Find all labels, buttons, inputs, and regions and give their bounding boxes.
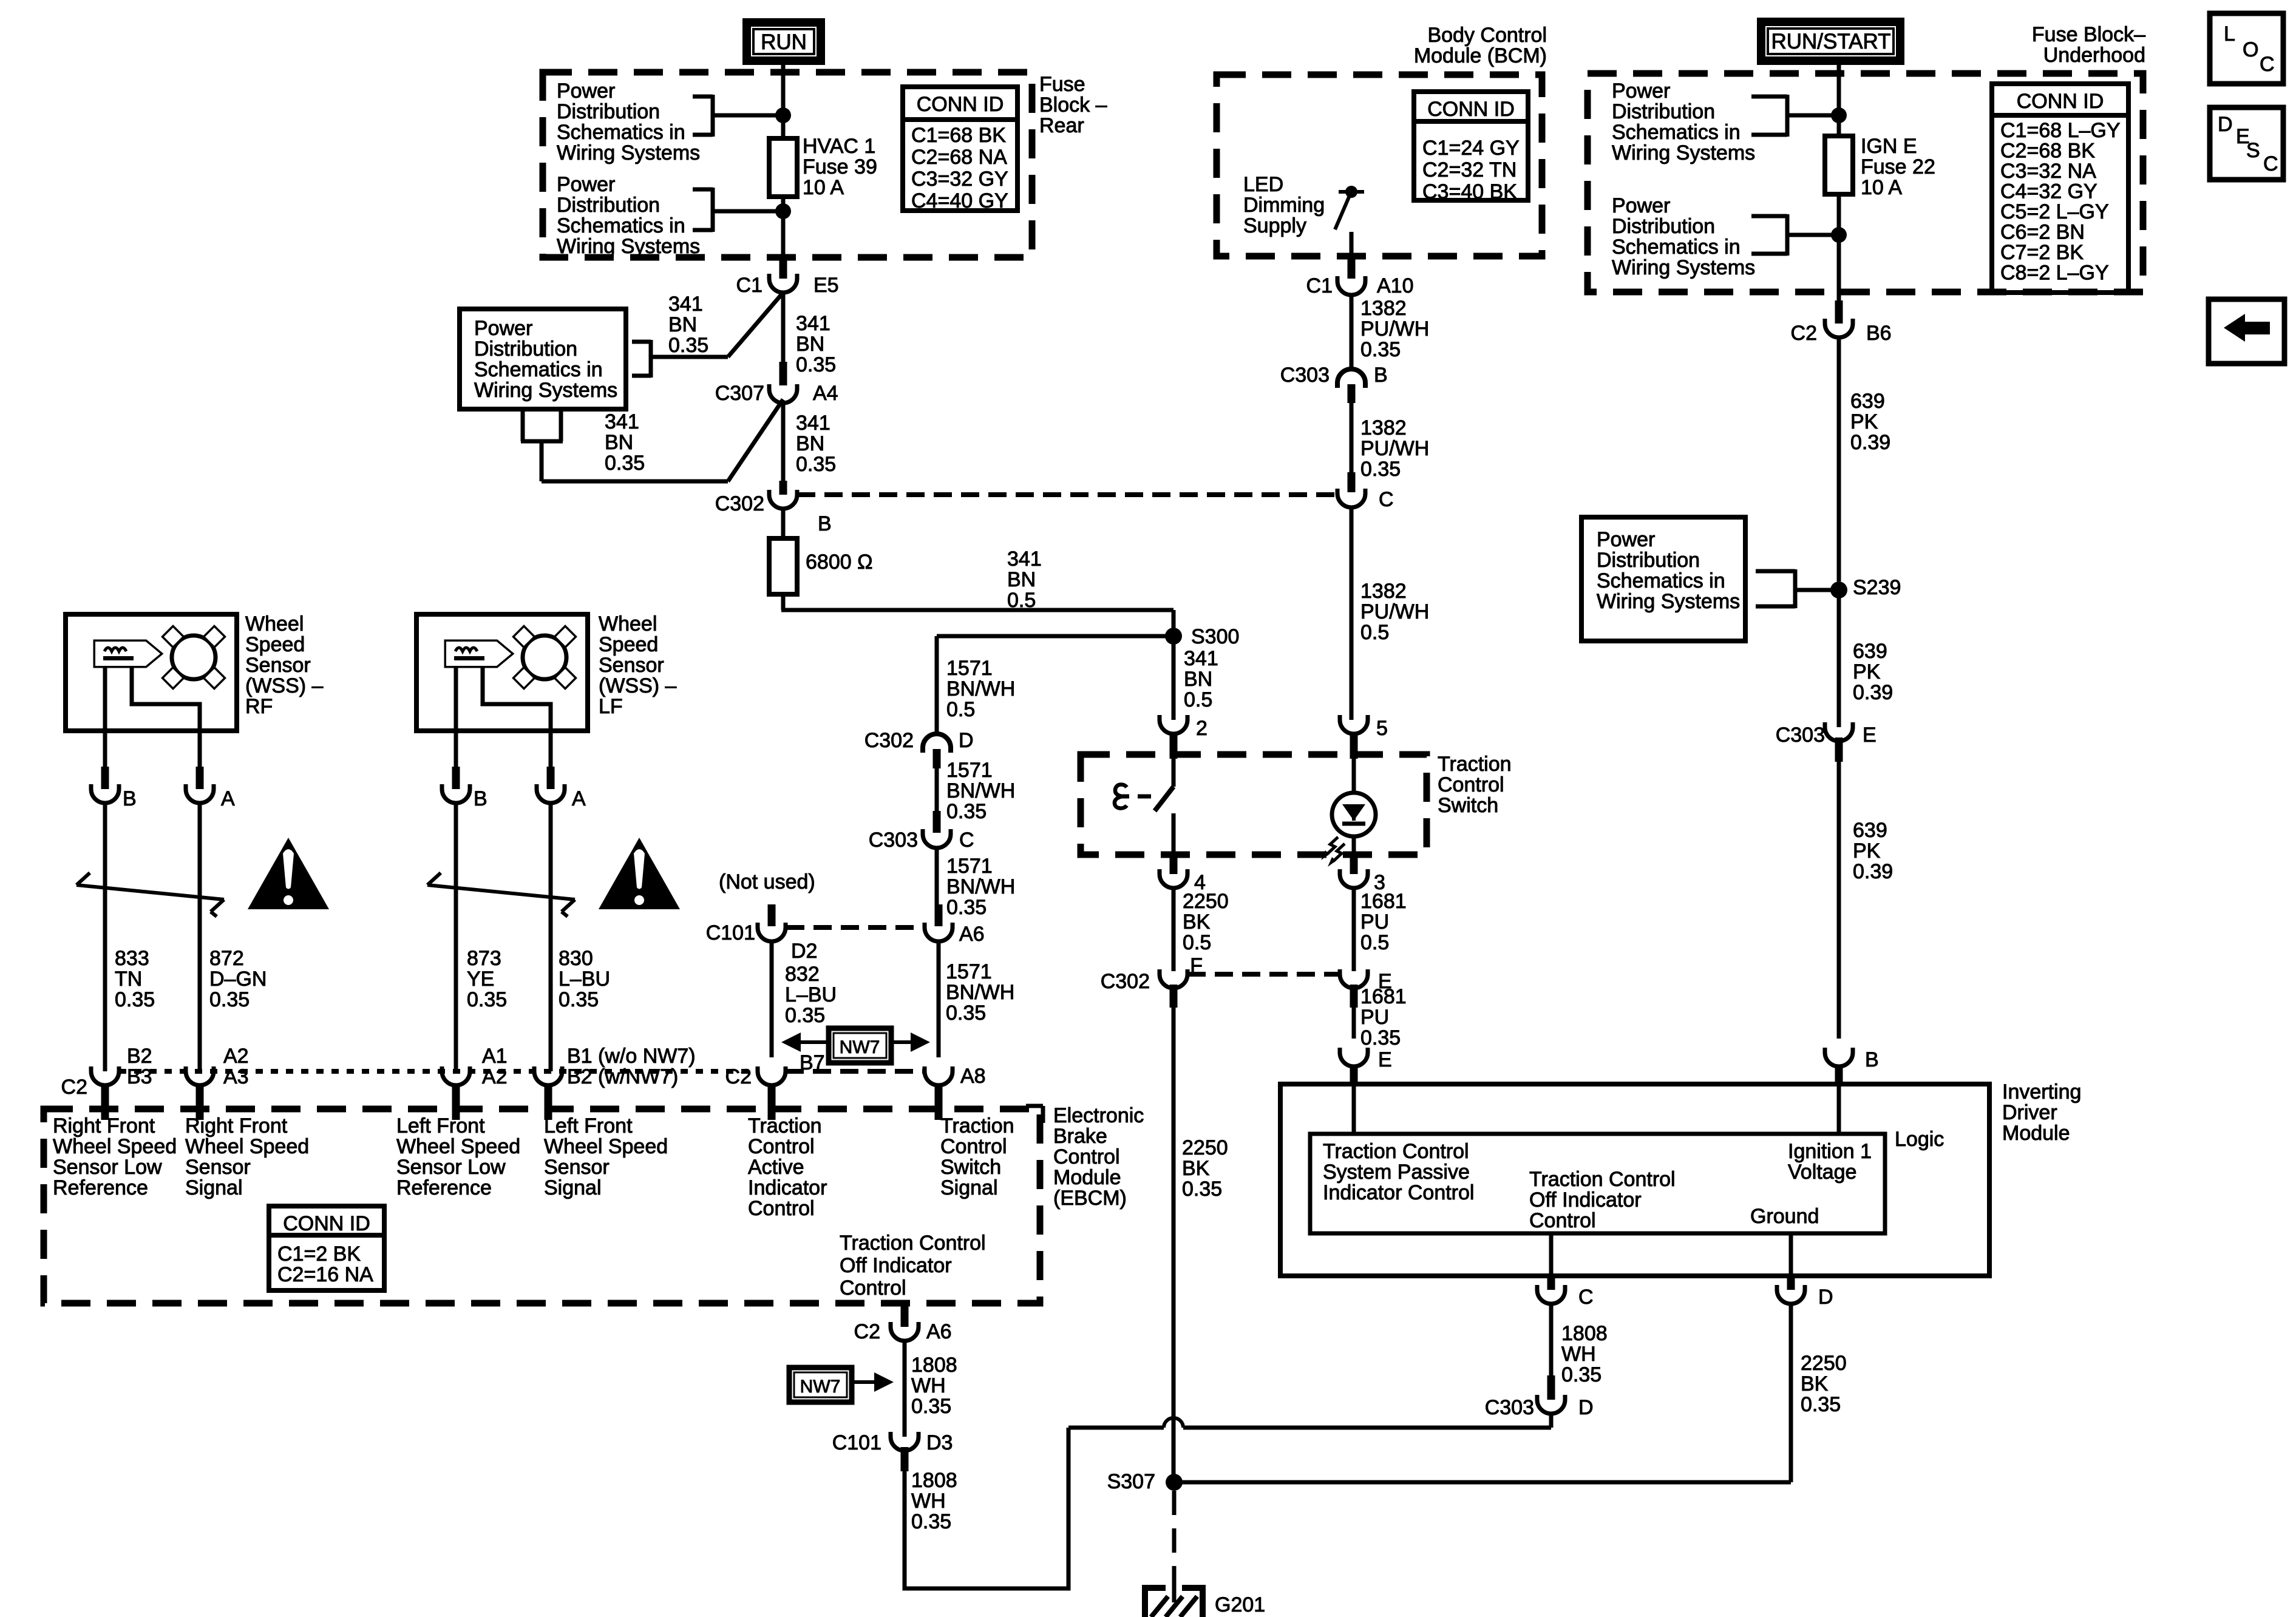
svg-text:S: S (2246, 139, 2260, 162)
svg-text:0.35: 0.35 (796, 353, 836, 376)
svg-text:E: E (1378, 1048, 1392, 1071)
svg-text:0.35: 0.35 (1360, 338, 1401, 361)
svg-text:A: A (572, 787, 586, 810)
svg-text:BN: BN (1184, 668, 1212, 691)
svg-text:Left Front: Left Front (544, 1114, 633, 1137)
svg-text:0.5: 0.5 (1007, 589, 1036, 612)
svg-text:C1=2 BK: C1=2 BK (277, 1242, 361, 1266)
svg-text:0.35: 0.35 (467, 988, 507, 1011)
svg-text:PK: PK (1853, 839, 1881, 863)
svg-text:Fuse 22: Fuse 22 (1861, 155, 1935, 178)
svg-text:Off Indicator: Off Indicator (840, 1254, 952, 1277)
svg-text:Inverting: Inverting (2002, 1080, 2081, 1103)
svg-text:0.35: 0.35 (1561, 1363, 1601, 1386)
svg-text:Control: Control (840, 1276, 906, 1300)
svg-text:PU/WH: PU/WH (1360, 437, 1429, 460)
svg-text:(EBCM): (EBCM) (1053, 1187, 1127, 1210)
svg-text:Wheel Speed: Wheel Speed (396, 1135, 520, 1158)
svg-text:L–BU: L–BU (785, 983, 837, 1006)
svg-text:B: B (1374, 364, 1388, 387)
svg-text:6800 Ω: 6800 Ω (806, 551, 873, 574)
svg-text:C3=32 GY: C3=32 GY (911, 168, 1008, 191)
svg-text:Distribution: Distribution (474, 337, 577, 361)
svg-text:A2: A2 (223, 1045, 249, 1068)
svg-text:Power: Power (557, 173, 615, 196)
svg-text:NW7: NW7 (800, 1377, 841, 1397)
svg-text:Fuse 39: Fuse 39 (803, 155, 877, 178)
svg-text:Reference: Reference (396, 1176, 492, 1199)
svg-text:(Not used): (Not used) (719, 870, 815, 893)
svg-text:E5: E5 (813, 274, 839, 297)
svg-text:0.35: 0.35 (115, 988, 155, 1011)
svg-text:A4: A4 (813, 382, 838, 405)
svg-text:0.39: 0.39 (1853, 860, 1893, 883)
svg-text:Right Front: Right Front (53, 1114, 155, 1137)
svg-text:Wiring Systems: Wiring Systems (474, 379, 617, 402)
svg-text:0.39: 0.39 (1850, 431, 1890, 454)
svg-text:Power: Power (557, 80, 615, 103)
svg-text:Wiring Systems: Wiring Systems (1612, 256, 1755, 279)
svg-text:Sensor: Sensor (185, 1156, 251, 1179)
svg-text:C: C (2263, 152, 2278, 175)
svg-text:0.5: 0.5 (1360, 931, 1389, 954)
svg-text:PU/WH: PU/WH (1360, 600, 1429, 623)
svg-text:Traction Control: Traction Control (1323, 1140, 1469, 1163)
svg-text:C2=32 TN: C2=32 TN (1422, 158, 1517, 181)
svg-text:BK: BK (1801, 1372, 1829, 1395)
svg-text:Wiring Systems: Wiring Systems (1612, 141, 1755, 164)
svg-text:LED: LED (1243, 173, 1283, 196)
svg-text:Sensor: Sensor (599, 654, 664, 677)
svg-text:BK: BK (1183, 910, 1211, 934)
svg-text:A10: A10 (1377, 274, 1414, 297)
svg-text:Dimming: Dimming (1243, 194, 1325, 217)
svg-text:Traction Control: Traction Control (840, 1232, 986, 1255)
svg-text:Sensor Low: Sensor Low (53, 1156, 162, 1179)
svg-text:S239: S239 (1853, 576, 1901, 599)
svg-text:Right Front: Right Front (185, 1114, 288, 1137)
svg-text:639: 639 (1853, 819, 1887, 842)
svg-text:Ignition 1: Ignition 1 (1788, 1140, 1872, 1163)
svg-text:Control: Control (748, 1197, 815, 1220)
svg-text:5: 5 (1376, 717, 1388, 740)
svg-text:RUN: RUN (761, 30, 807, 54)
svg-text:2250: 2250 (1183, 890, 1229, 913)
svg-text:Wheel Speed: Wheel Speed (53, 1135, 177, 1158)
svg-text:Wiring Systems: Wiring Systems (557, 235, 700, 258)
svg-text:Distribution: Distribution (1597, 549, 1700, 572)
svg-text:341: 341 (796, 412, 830, 435)
svg-text:D2: D2 (791, 940, 817, 963)
svg-text:C6=2 BN: C6=2 BN (2000, 221, 2085, 244)
svg-text:C2=68 NA: C2=68 NA (911, 146, 1007, 169)
svg-text:0.5: 0.5 (1183, 931, 1211, 954)
svg-text:Brake: Brake (1053, 1125, 1107, 1148)
svg-text:S307: S307 (1107, 1470, 1155, 1493)
svg-text:0.5: 0.5 (1184, 688, 1212, 711)
svg-text:Power: Power (1612, 194, 1670, 217)
svg-text:Control: Control (748, 1135, 815, 1158)
svg-text:2250: 2250 (1801, 1352, 1847, 1375)
svg-text:C7=2 BK: C7=2 BK (2000, 241, 2084, 264)
svg-text:D: D (959, 729, 974, 752)
svg-text:Electronic: Electronic (1053, 1104, 1144, 1127)
svg-text:0.5: 0.5 (1360, 621, 1389, 644)
svg-text:1681: 1681 (1360, 985, 1407, 1008)
svg-text:C: C (1578, 1286, 1594, 1309)
svg-text:Distribution: Distribution (557, 100, 660, 123)
svg-text:0.35: 0.35 (1360, 458, 1401, 481)
svg-text:Indicator: Indicator (748, 1176, 827, 1199)
svg-text:C307: C307 (715, 382, 764, 405)
svg-text:L–BU: L–BU (559, 968, 610, 991)
svg-text:BN: BN (668, 313, 697, 336)
svg-text:Speed: Speed (245, 633, 305, 656)
svg-text:C1=24 GY: C1=24 GY (1422, 137, 1520, 160)
svg-text:Wheel: Wheel (245, 612, 304, 636)
svg-text:1681: 1681 (1360, 890, 1407, 913)
svg-text:Module: Module (1053, 1166, 1121, 1189)
svg-text:1382: 1382 (1360, 297, 1407, 320)
svg-text:BN/WH: BN/WH (946, 779, 1015, 802)
svg-text:C303: C303 (869, 829, 918, 852)
svg-text:LF: LF (599, 695, 623, 718)
svg-text:C: C (2260, 53, 2275, 76)
svg-text:1382: 1382 (1360, 580, 1407, 603)
svg-text:D: D (1578, 1396, 1594, 1419)
svg-text:1808: 1808 (911, 1354, 957, 1377)
svg-text:C: C (959, 829, 974, 852)
svg-text:10 A: 10 A (803, 176, 844, 199)
svg-text:CONN ID: CONN ID (1427, 98, 1515, 121)
svg-text:Off Indicator: Off Indicator (1529, 1188, 1642, 1212)
svg-text:Ground: Ground (1750, 1205, 1819, 1228)
svg-text:B: B (474, 787, 487, 810)
svg-text:Schematics in: Schematics in (1612, 121, 1741, 144)
svg-text:Module (BCM): Module (BCM) (1414, 44, 1547, 67)
svg-text:Traction: Traction (940, 1114, 1014, 1137)
svg-text:HVAC 1: HVAC 1 (803, 135, 875, 158)
svg-text:BN/WH: BN/WH (946, 981, 1014, 1004)
svg-text:System Passive: System Passive (1323, 1161, 1470, 1184)
svg-text:Signal: Signal (940, 1176, 998, 1199)
svg-text:A8: A8 (960, 1065, 986, 1088)
svg-text:B2: B2 (127, 1045, 152, 1068)
svg-text:Traction: Traction (748, 1114, 822, 1137)
svg-text:0.35: 0.35 (946, 1002, 986, 1025)
svg-text:1808: 1808 (1561, 1322, 1608, 1345)
svg-text:PU/WH: PU/WH (1360, 317, 1429, 341)
svg-text:10 A: 10 A (1861, 176, 1902, 199)
svg-text:BN: BN (605, 431, 633, 454)
svg-text:B: B (123, 787, 137, 810)
svg-text:(WSS) –: (WSS) – (245, 674, 324, 697)
svg-text:Wiring Systems: Wiring Systems (1597, 590, 1740, 613)
svg-text:C303: C303 (1485, 1396, 1534, 1419)
svg-text:C4=40 GY: C4=40 GY (911, 189, 1008, 212)
svg-text:Rear: Rear (1039, 114, 1084, 137)
svg-text:PU: PU (1360, 1006, 1389, 1029)
svg-text:0.35: 0.35 (1801, 1393, 1841, 1416)
svg-text:Control: Control (940, 1135, 1007, 1158)
svg-text:Fuse Block–: Fuse Block– (2032, 23, 2145, 46)
svg-text:C1: C1 (1306, 274, 1333, 297)
svg-text:C2=16 NA: C2=16 NA (277, 1263, 373, 1286)
svg-text:Power: Power (1597, 528, 1655, 551)
svg-text:C1=68 BK: C1=68 BK (911, 124, 1006, 147)
svg-text:BN/WH: BN/WH (946, 875, 1015, 898)
svg-text:BN: BN (796, 432, 824, 455)
svg-text:Voltage: Voltage (1788, 1161, 1856, 1184)
svg-text:Distribution: Distribution (557, 194, 660, 217)
svg-text:Schematics in: Schematics in (1597, 569, 1725, 592)
svg-text:Traction Control: Traction Control (1529, 1168, 1676, 1191)
svg-text:Block –: Block – (1039, 93, 1107, 117)
svg-text:1571: 1571 (946, 759, 993, 782)
svg-text:Speed: Speed (599, 633, 658, 656)
svg-text:Driver: Driver (2002, 1101, 2057, 1124)
svg-text:341: 341 (796, 312, 830, 335)
svg-text:TN: TN (115, 968, 142, 991)
svg-text:872: 872 (209, 947, 244, 970)
svg-text:Traction: Traction (1438, 753, 1512, 776)
svg-text:CONN ID: CONN ID (2017, 90, 2104, 113)
svg-text:0.35: 0.35 (1182, 1178, 1222, 1201)
svg-text:Reference: Reference (53, 1176, 148, 1199)
svg-text:Wheel: Wheel (599, 612, 657, 636)
svg-text:Supply: Supply (1243, 214, 1306, 237)
svg-text:C101: C101 (706, 921, 755, 944)
svg-text:Schematics in: Schematics in (557, 121, 685, 144)
svg-text:Left Front: Left Front (396, 1114, 485, 1137)
svg-text:E: E (1863, 724, 1877, 747)
svg-text:A6: A6 (926, 1320, 952, 1343)
svg-text:C1: C1 (736, 274, 763, 297)
svg-text:WH: WH (911, 1490, 946, 1513)
svg-text:Module: Module (2002, 1122, 2070, 1145)
svg-text:Sensor Low: Sensor Low (396, 1156, 506, 1179)
svg-text:Schematics in: Schematics in (474, 358, 603, 381)
svg-text:A: A (221, 787, 235, 810)
svg-text:(WSS) –: (WSS) – (599, 674, 677, 697)
svg-text:A6: A6 (959, 923, 985, 946)
svg-text:B3: B3 (127, 1065, 152, 1088)
svg-text:Sensor: Sensor (544, 1156, 610, 1179)
svg-text:A2: A2 (482, 1065, 508, 1088)
svg-text:1571: 1571 (946, 855, 993, 878)
svg-text:Indicator Control: Indicator Control (1323, 1181, 1474, 1204)
svg-text:Underhood: Underhood (2043, 44, 2145, 67)
svg-text:C303: C303 (1776, 724, 1825, 747)
svg-text:341: 341 (668, 293, 703, 316)
svg-text:Schematics in: Schematics in (557, 214, 685, 237)
svg-text:B2 (w/NW7): B2 (w/NW7) (567, 1065, 678, 1088)
svg-text:0.35: 0.35 (559, 988, 599, 1011)
svg-text:B6: B6 (1866, 322, 1892, 345)
svg-text:Signal: Signal (544, 1176, 602, 1199)
svg-text:WH: WH (911, 1374, 946, 1397)
svg-text:Distribution: Distribution (1612, 215, 1715, 238)
svg-text:C2: C2 (854, 1320, 880, 1343)
svg-text:C3=32 NA: C3=32 NA (2000, 160, 2096, 183)
svg-text:639: 639 (1850, 390, 1885, 413)
svg-text:Wheel Speed: Wheel Speed (185, 1135, 309, 1158)
svg-text:C101: C101 (832, 1431, 881, 1454)
svg-text:C2: C2 (725, 1065, 752, 1088)
svg-text:C302: C302 (1101, 970, 1150, 993)
svg-text:Power: Power (474, 317, 532, 340)
svg-text:Sensor: Sensor (245, 654, 311, 677)
svg-text:Control: Control (1438, 773, 1504, 796)
svg-text:A3: A3 (223, 1065, 249, 1088)
svg-text:YE: YE (467, 968, 494, 991)
svg-text:C302: C302 (715, 492, 764, 515)
svg-text:Logic: Logic (1895, 1128, 1944, 1151)
svg-text:C302: C302 (864, 729, 914, 752)
svg-text:BK: BK (1182, 1157, 1210, 1180)
svg-text:BN: BN (796, 333, 824, 356)
svg-text:639: 639 (1853, 640, 1887, 663)
svg-text:Schematics in: Schematics in (1612, 236, 1741, 259)
svg-text:C1=68 L–GY: C1=68 L–GY (2000, 119, 2121, 142)
svg-text:1571: 1571 (946, 657, 993, 680)
svg-text:CONN ID: CONN ID (283, 1212, 370, 1235)
svg-text:341: 341 (605, 410, 639, 433)
svg-text:RUN/START: RUN/START (1771, 30, 1890, 53)
svg-text:A1: A1 (482, 1045, 508, 1068)
svg-text:Wiring Systems: Wiring Systems (557, 141, 700, 164)
svg-text:D3: D3 (926, 1431, 953, 1454)
svg-text:G201: G201 (1215, 1593, 1265, 1616)
svg-text:Power: Power (1612, 80, 1670, 103)
svg-text:C303: C303 (1280, 364, 1330, 387)
svg-text:Control: Control (1053, 1145, 1120, 1168)
svg-text:0.35: 0.35 (911, 1510, 951, 1533)
svg-text:Active: Active (748, 1156, 804, 1179)
svg-text:PK: PK (1853, 660, 1881, 683)
svg-text:0.35: 0.35 (1360, 1026, 1401, 1049)
svg-text:832: 832 (785, 963, 820, 986)
svg-text:Signal: Signal (185, 1176, 243, 1199)
svg-text:NW7: NW7 (840, 1037, 880, 1057)
svg-text:0.35: 0.35 (946, 896, 987, 919)
svg-text:PK: PK (1850, 410, 1878, 433)
svg-text:C2: C2 (1791, 322, 1817, 345)
svg-text:CONN ID: CONN ID (917, 93, 1004, 116)
svg-text:D: D (1818, 1286, 1833, 1309)
svg-text:Body Control: Body Control (1427, 24, 1547, 47)
svg-text:Wheel Speed: Wheel Speed (544, 1135, 668, 1158)
svg-text:C4=32 GY: C4=32 GY (2000, 180, 2097, 203)
svg-text:Switch: Switch (940, 1156, 1001, 1179)
svg-text:C2=68 BK: C2=68 BK (2000, 140, 2095, 163)
svg-text:0.35: 0.35 (911, 1395, 951, 1418)
svg-text:Fuse: Fuse (1039, 73, 1085, 96)
svg-text:B1 (w/o NW7): B1 (w/o NW7) (567, 1045, 696, 1068)
svg-text:1808: 1808 (911, 1469, 957, 1492)
svg-text:0.5: 0.5 (946, 698, 975, 721)
svg-text:2250: 2250 (1182, 1136, 1228, 1159)
svg-text:C5=2 L–GY: C5=2 L–GY (2000, 200, 2109, 223)
svg-text:2: 2 (1196, 717, 1207, 740)
svg-text:C8=2 L–GY: C8=2 L–GY (2000, 262, 2109, 285)
svg-text:Distribution: Distribution (1612, 100, 1715, 123)
svg-text:PU: PU (1360, 910, 1389, 934)
svg-text:0.35: 0.35 (668, 334, 708, 357)
svg-text:830: 830 (559, 947, 593, 970)
svg-text:833: 833 (115, 947, 149, 970)
svg-text:B: B (1865, 1048, 1879, 1071)
svg-text:873: 873 (467, 947, 501, 970)
svg-text:IGN E: IGN E (1861, 135, 1917, 158)
svg-text:341: 341 (1184, 647, 1218, 670)
svg-text:BN: BN (1007, 568, 1036, 591)
svg-text:1382: 1382 (1360, 416, 1407, 439)
svg-text:0.35: 0.35 (785, 1004, 825, 1027)
svg-text:O: O (2243, 38, 2258, 61)
svg-text:C2: C2 (61, 1076, 87, 1099)
svg-text:Control: Control (1529, 1209, 1596, 1232)
svg-text:WH: WH (1561, 1343, 1596, 1366)
svg-text:S300: S300 (1191, 625, 1239, 648)
svg-text:1571: 1571 (946, 960, 992, 983)
svg-text:0.35: 0.35 (946, 800, 987, 823)
svg-text:D–GN: D–GN (209, 968, 267, 991)
svg-text:0.35: 0.35 (605, 452, 645, 475)
svg-text:C: C (1379, 488, 1394, 511)
svg-text:C3=40 BK: C3=40 BK (1422, 180, 1517, 203)
svg-text:B: B (818, 512, 832, 535)
svg-text:0.39: 0.39 (1853, 681, 1893, 704)
svg-text:RF: RF (245, 695, 273, 718)
svg-text:Switch: Switch (1438, 794, 1498, 817)
svg-text:D: D (2218, 113, 2233, 136)
svg-text:0.35: 0.35 (796, 453, 836, 476)
svg-text:341: 341 (1007, 547, 1042, 571)
svg-text:0.35: 0.35 (209, 988, 250, 1011)
svg-text:L: L (2224, 22, 2235, 46)
svg-text:BN/WH: BN/WH (946, 677, 1015, 700)
